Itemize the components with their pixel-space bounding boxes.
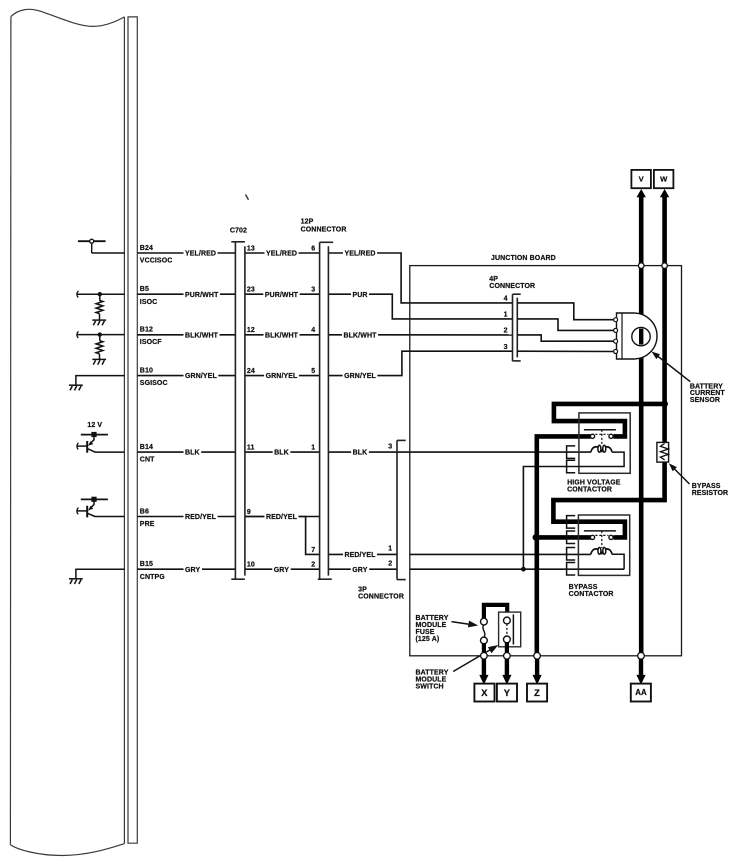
wire thick loop fuse to switch: [484, 605, 507, 619]
transistor Q1 (CNT driver, PNP): [87, 437, 95, 453]
arrow down to terminal AA: [636, 659, 645, 685]
label BYPASS RESISTOR: [692, 483, 728, 497]
transistor Q2 (PRE driver, PNP): [87, 502, 95, 518]
value label RED/YEL (segment B row 6): [264, 512, 298, 521]
ground symbol under R-ISOC: [92, 320, 106, 325]
node VCC switch bar (B24 row internal symbol): [78, 241, 106, 253]
svg-text:GRY: GRY: [274, 567, 289, 574]
label HIGH VOLTAGE CONTACTOR: [567, 480, 621, 494]
svg-text:CONTACTOR: CONTACTOR: [569, 591, 614, 598]
open junction circle above terminal AA: [638, 653, 645, 660]
label BATTERY CURRENT SENSOR: [690, 383, 726, 404]
svg-text:RED/YEL: RED/YEL: [266, 514, 298, 521]
bypass coil interior return wiring: [612, 554, 624, 569]
wire row 1 from C702 to 12P (YEL/RED): [245, 252, 320, 254]
svg-text:VCCISOC: VCCISOC: [140, 258, 173, 265]
junction dot on B5 wire: [98, 292, 102, 296]
svg-text:MODULE: MODULE: [416, 622, 447, 629]
svg-text:1: 1: [388, 546, 392, 553]
control module (battery ECU) box with torn wavy edges: [10, 9, 124, 855]
wire thick bypass contactor left contact feed: [536, 535, 591, 540]
svg-text:BYPASS: BYPASS: [569, 584, 598, 591]
connector 4P: [513, 294, 521, 361]
wire thick W to HV contactor switch (right contact): [554, 404, 665, 437]
svg-text:1: 1: [504, 312, 508, 319]
value label GRY (segment C row 7): [351, 565, 369, 574]
svg-text:PUR: PUR: [352, 292, 367, 299]
pin label B6 / net PRE: [140, 509, 155, 529]
power rail 12V bar with square terminal: [81, 432, 108, 437]
label 3P CONNECTOR: [358, 587, 404, 601]
wire GRN/YEL from 12P to 4P pin 3 (steps up): [328, 351, 512, 375]
pin label B24 / net VCCISOC: [140, 245, 173, 265]
svg-text:GRY: GRY: [185, 567, 200, 574]
open junction circle above terminal Z: [534, 653, 541, 660]
bypass contactor switch terminal bracket 2: [567, 531, 576, 544]
value label YEL/RED (segment A row 1): [184, 249, 218, 258]
svg-text:BLK/WHT: BLK/WHT: [344, 332, 378, 339]
switch contact circle bottom: [504, 636, 511, 643]
svg-text:HIGH VOLTAGE: HIGH VOLTAGE: [567, 480, 621, 487]
value label GRN/YEL (segment B row 4): [264, 371, 299, 380]
arrow down to terminal Y: [502, 659, 511, 685]
wire row 3 from module to C702 (BLK/WHT): [137, 334, 235, 336]
pin label B5 / net ISOC: [140, 286, 158, 306]
fuse terminal circle bottom: [481, 637, 488, 644]
resistor R-ISOC (pull-down on B5): [96, 294, 103, 320]
svg-text:5: 5: [311, 368, 315, 375]
terminal Y box: [497, 684, 517, 702]
value label GRY (segment A row 7): [184, 565, 202, 574]
svg-text:7: 7: [311, 547, 315, 554]
wire thick W lower through bypass resistor to bypass contactor (right contact): [553, 462, 664, 537]
wire BLK from 12P through 3P pin 3 to HV contactor coil: [328, 451, 591, 453]
svg-text:X: X: [481, 688, 488, 698]
svg-text:B10: B10: [140, 368, 153, 375]
value label BLK/WHT (segment A row 3): [184, 330, 220, 339]
svg-text:B24: B24: [140, 245, 153, 252]
pin label B15 / net CNTPG: [140, 561, 165, 581]
value label GRN/YEL (segment A row 4): [184, 371, 219, 380]
svg-text:12: 12: [247, 327, 255, 334]
wire RED/YEL from 12P pin 7 to 3P pin 1: [328, 553, 397, 555]
wire RED/YEL inside board to bypass contactor coil: [410, 553, 591, 555]
module connector strip (right column of module): [128, 17, 137, 843]
value label BLK (segment B row 5): [273, 448, 291, 457]
wire row 1 from module to C702 (YEL/RED): [137, 252, 235, 254]
wire RED/YEL jog from C702 pin 9 down to 12P pin 7: [245, 517, 320, 555]
svg-text:FUSE: FUSE: [416, 629, 435, 636]
wire YEL/RED from 12P to 4P pin 4 (steps down): [328, 253, 512, 303]
arrowhead up into W: [660, 189, 669, 197]
wire row 5 from module to C702 (BLK): [137, 451, 235, 453]
svg-text:4: 4: [504, 296, 508, 303]
svg-text:SGISOC: SGISOC: [140, 380, 168, 387]
wire B6 internal: [95, 516, 125, 518]
wire row 7 from module to C702 (GRY): [137, 568, 235, 570]
svg-text:RED/YEL: RED/YEL: [344, 552, 376, 559]
bypass contactor coil terminal bracket 3 (RED/YEL): [567, 548, 576, 561]
wire BLK/WHT from 12P to 4P pin 2: [328, 334, 512, 336]
terminal V box: [631, 170, 651, 188]
open junction circle above terminal Y: [504, 653, 511, 660]
svg-text:3: 3: [311, 287, 315, 294]
wire B12 internal with end curl: [77, 331, 79, 338]
svg-text:3: 3: [504, 344, 508, 351]
value label PUR (segment C row 2): [351, 290, 369, 299]
svg-text:1: 1: [311, 445, 315, 452]
arrowhead up into V: [637, 189, 646, 197]
svg-text:24: 24: [247, 368, 255, 375]
label BATTERY MODULE SWITCH: [416, 670, 449, 691]
label 12P CONNECTOR: [301, 218, 347, 233]
svg-text:CNTPG: CNTPG: [140, 574, 165, 581]
svg-text:B5: B5: [140, 286, 149, 293]
svg-text:BLK/WHT: BLK/WHT: [185, 332, 219, 339]
arrow down to terminal Z: [533, 659, 542, 685]
svg-text:BLK: BLK: [185, 450, 200, 457]
value label PUR/WHT (segment B row 2): [263, 290, 299, 299]
wire B14 internal: [95, 451, 125, 453]
arrow pointer to bypass resistor: [669, 463, 690, 484]
wire GRY inside board to bypass contactor coil return: [410, 568, 624, 570]
open junction circle V at board top: [638, 263, 644, 269]
HV contactor coil terminal bracket 1 (BLK): [567, 446, 576, 459]
svg-text:Z: Z: [534, 688, 540, 698]
arrow down to terminal X: [479, 659, 488, 685]
wire switch bottom to board edge: [505, 642, 509, 654]
bypass contactor U2 (relay): [578, 515, 629, 575]
svg-text:YEL/RED: YEL/RED: [344, 251, 375, 258]
svg-text:2: 2: [388, 560, 392, 567]
pin label B10 / net SGISOC: [140, 368, 168, 388]
bypass contactor coil terminal bracket 4 (GRY): [567, 563, 576, 576]
svg-text:2: 2: [311, 562, 315, 569]
wire B15 internal to ground: [76, 569, 125, 578]
svg-text:SENSOR: SENSOR: [690, 397, 720, 404]
svg-text:AA: AA: [635, 688, 647, 697]
svg-text:RESISTOR: RESISTOR: [692, 490, 728, 497]
wire row 3 from C702 to 12P (BLK/WHT): [245, 334, 320, 336]
label BYPASS CONTACTOR: [569, 584, 614, 598]
svg-text:4: 4: [311, 327, 315, 334]
value label RED/YEL (segment C row 6): [343, 550, 377, 559]
svg-text:10: 10: [247, 562, 255, 569]
svg-text:B14: B14: [140, 444, 153, 451]
value label GRY (segment B row 7): [272, 565, 290, 574]
svg-text:GRN/YEL: GRN/YEL: [185, 373, 217, 380]
svg-text:RED/YEL: RED/YEL: [185, 514, 217, 521]
svg-text:PRE: PRE: [140, 521, 155, 528]
value label GRN/YEL (segment C row 4): [343, 371, 378, 380]
power bar with square terminal (PRE driver): [81, 497, 108, 502]
svg-text:23: 23: [247, 287, 255, 294]
wire row 2 from C702 to 12P (PUR/WHT): [245, 293, 320, 295]
battery module switch box: [499, 612, 521, 647]
svg-text:CONTACTOR: CONTACTOR: [567, 487, 612, 494]
svg-text:BLK: BLK: [274, 450, 289, 457]
sensor pin 4 terminal circle: [614, 350, 618, 354]
sensor pin 3 terminal circle: [614, 339, 618, 343]
svg-text:12P: 12P: [301, 218, 314, 225]
arrow pointer to switch: [453, 645, 498, 672]
svg-text:JUNCTION BOARD: JUNCTION BOARD: [491, 255, 556, 262]
sensor pin 1 terminal circle: [614, 318, 618, 322]
wire row 7 from C702 to 12P (GRY): [245, 568, 320, 570]
svg-text:PUR/WHT: PUR/WHT: [185, 292, 219, 299]
svg-text:CNT: CNT: [140, 457, 155, 464]
svg-text:CONNECTOR: CONNECTOR: [301, 226, 347, 233]
junction dot GRY branch: [521, 567, 526, 572]
svg-text:SWITCH: SWITCH: [416, 683, 444, 690]
open junction circle W at board top: [662, 263, 668, 269]
battery module fuse element: [483, 625, 485, 638]
ground symbol SGISOC: [69, 385, 83, 390]
wire B24 internal to module edge: [92, 252, 125, 254]
ground symbol under R-ISOCF: [92, 359, 106, 364]
junction dot W at HV feed: [661, 401, 668, 408]
HV coil interior return wiring: [567, 452, 625, 466]
svg-text:PUR/WHT: PUR/WHT: [265, 292, 299, 299]
wire PUR from 12P to 4P pin 1 (steps down): [328, 294, 512, 319]
wire GRY from 12P pin 2 to 3P pin 2: [328, 568, 397, 570]
terminal W box: [654, 170, 674, 188]
junction dot on Z line for bypass contactor feed: [533, 534, 540, 541]
terminal X box: [474, 684, 494, 702]
svg-text:B12: B12: [140, 327, 153, 334]
svg-text:B6: B6: [140, 509, 149, 516]
value label YEL/RED (segment C row 1): [343, 249, 377, 258]
wire row 5 from C702 to 12P (BLK): [245, 451, 320, 453]
switch contact circle top: [504, 617, 511, 624]
pin label B14 / net CNT: [140, 444, 155, 464]
svg-text:ISOCF: ISOCF: [140, 339, 163, 346]
svg-text:YEL/RED: YEL/RED: [185, 251, 216, 258]
junction board outline: [410, 266, 682, 656]
svg-text:YEL/RED: YEL/RED: [266, 251, 297, 258]
sensor inner hole with V wire through it: [632, 327, 650, 345]
arrow pointer to sensor: [652, 352, 691, 382]
svg-text:12 V: 12 V: [87, 422, 102, 429]
svg-text:C702: C702: [230, 228, 247, 235]
wire 4P pin 1 to sensor pin 2: [517, 319, 613, 331]
wire 4P pin 3 to sensor pin 4: [517, 350, 613, 352]
svg-text:BATTERY: BATTERY: [416, 615, 449, 622]
arrow pointer to fuse: [452, 621, 479, 628]
connector C702: [231, 242, 245, 579]
wire row 2 from module to C702 (PUR/WHT): [137, 293, 235, 295]
svg-text:4P: 4P: [489, 276, 498, 283]
wire 4P pin 2 to sensor pin 3: [517, 335, 613, 341]
svg-text:11: 11: [247, 445, 255, 452]
value label PUR/WHT (segment A row 2): [184, 290, 220, 299]
battery current sensor body: [617, 313, 658, 359]
svg-text:Y: Y: [504, 688, 511, 698]
value label BLK (segment C row 5): [351, 448, 369, 457]
svg-text:B15: B15: [140, 561, 153, 568]
wire GRY branch riser to HV contactor coil return: [523, 467, 566, 570]
wire Q1 base lead with curl: [77, 443, 79, 450]
svg-text:BLK: BLK: [353, 450, 368, 457]
svg-text:W: W: [660, 174, 668, 183]
wire B10 internal to ground: [76, 376, 125, 385]
wire row 4 from module to C702 (GRN/YEL): [137, 375, 235, 377]
svg-text:9: 9: [247, 509, 251, 516]
bypass contactor switch terminal bracket 1: [567, 516, 576, 529]
wire Q2 base lead with curl: [77, 508, 79, 515]
svg-text:GRN/YEL: GRN/YEL: [266, 373, 298, 380]
value label BLK/WHT (segment C row 3): [342, 330, 378, 339]
svg-text:CONNECTOR: CONNECTOR: [489, 283, 535, 290]
svg-text:BLK/WHT: BLK/WHT: [265, 332, 299, 339]
high voltage contactor U1 (relay): [579, 413, 630, 473]
ground symbol CNTPG: [69, 579, 83, 584]
wire fuse bottom to board edge: [482, 643, 486, 654]
sensor pin 2 terminal circle: [614, 328, 618, 332]
label BATTERY MODULE FUSE (125 A): [416, 615, 449, 643]
svg-text:3: 3: [388, 443, 392, 450]
wire row 6 from C702 to 12P (RED/YEL): [245, 516, 320, 518]
wire W thick vertical upper: [662, 194, 667, 443]
svg-text:6: 6: [311, 245, 315, 252]
connector 3P: [397, 440, 406, 579]
wire B5 internal with end curl: [77, 291, 79, 298]
wire V thick vertical (to battery current sensor and terminal AA): [639, 194, 644, 654]
wire 4P pin 4 to sensor pin 1: [517, 303, 613, 320]
svg-text:GRY: GRY: [352, 567, 367, 574]
value label YEL/RED (segment B row 1): [264, 249, 298, 258]
wire thick Z line from HV contactor left contact down to terminal Z: [537, 436, 591, 653]
svg-text:2: 2: [504, 328, 508, 335]
svg-text:13: 13: [247, 245, 255, 252]
svg-text:CONNECTOR: CONNECTOR: [358, 593, 404, 600]
svg-text:ISOC: ISOC: [140, 299, 158, 306]
wire row 6 from module to C702 (RED/YEL): [137, 516, 235, 518]
terminal AA box: [631, 684, 651, 702]
open junction circle above terminal X: [481, 653, 488, 660]
value label BLK/WHT (segment B row 3): [264, 330, 300, 339]
resistor R-ISOCF (pull-down on B12): [96, 335, 103, 360]
pin label B12 / net ISOCF: [140, 327, 163, 347]
svg-text:(125 A): (125 A): [416, 636, 440, 643]
HV contactor coil terminal bracket 2 (GRY): [567, 460, 576, 473]
value label BLK (segment A row 5): [184, 448, 202, 457]
label 4P CONNECTOR: [489, 276, 535, 290]
terminal Z box: [527, 684, 547, 702]
value label RED/YEL (segment A row 6): [184, 512, 218, 521]
bypass resistor box with zigzag: [657, 442, 669, 462]
stray mark (scan artifact): [246, 195, 249, 200]
node open-circle terminal on B24 bar: [90, 239, 94, 243]
fuse terminal circle top: [481, 618, 488, 625]
connector 12P: [318, 242, 333, 579]
wire row 4 from C702 to 12P (GRN/YEL): [245, 375, 320, 377]
svg-text:GRN/YEL: GRN/YEL: [344, 373, 376, 380]
junction dot on B12 wire: [98, 332, 102, 336]
